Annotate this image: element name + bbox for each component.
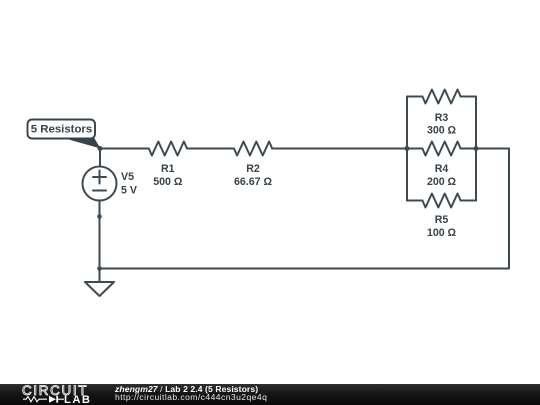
CircuitLab logo [22,383,92,405]
wire middle branch left lead [407,148,422,150]
resistor R4 [422,142,460,156]
svg-text:R4: R4 [435,163,449,175]
svg-text:500 Ω: 500 Ω [153,176,183,188]
wire middle branch right lead [461,148,476,150]
svg-text:100 Ω: 100 Ω [427,227,457,239]
svg-text:LAB: LAB [64,394,92,405]
node left bus junction [405,146,410,151]
node at ground rail [97,266,102,271]
credit text [115,385,267,402]
resistor R3 [422,90,460,104]
resistor R1 [149,142,187,156]
resistor R2 [234,142,272,156]
wire top branch left lead [407,96,422,98]
wire R1 to R2 [187,148,234,150]
node at top of source (junction with label tail) [98,146,103,151]
svg-text:R3: R3 [435,112,449,124]
wire node to source top [99,149,101,167]
wire left bus of parallel block [406,97,408,201]
svg-text:V5: V5 [121,171,134,183]
callout 5 Resistors [28,120,101,149]
svg-text:5 V: 5 V [121,185,137,197]
svg-text:66.67 Ω: 66.67 Ω [234,176,272,188]
svg-text:5 Resistors: 5 Resistors [31,123,92,135]
svg-text:300 Ω: 300 Ω [427,125,457,137]
wire return right side [100,149,510,269]
wire R2 to parallel block [272,148,407,150]
svg-text:R2: R2 [246,163,260,175]
node below source [97,214,102,219]
node right bus junction [474,146,479,151]
footer bar [0,384,540,405]
svg-text:R1: R1 [161,163,175,175]
wire source bottom to ground rail [99,201,101,269]
wire right bus of parallel block [475,97,477,201]
svg-text:R5: R5 [435,214,449,226]
ground [85,269,114,297]
resistor R5 [422,194,460,208]
wire bottom branch left lead [407,200,422,202]
svg-text:200 Ω: 200 Ω [427,176,457,188]
voltage source V5 [83,167,117,201]
wire bottom branch right lead [461,200,476,202]
wire top from node to R1 [100,148,149,150]
wire top branch right lead [461,96,476,98]
